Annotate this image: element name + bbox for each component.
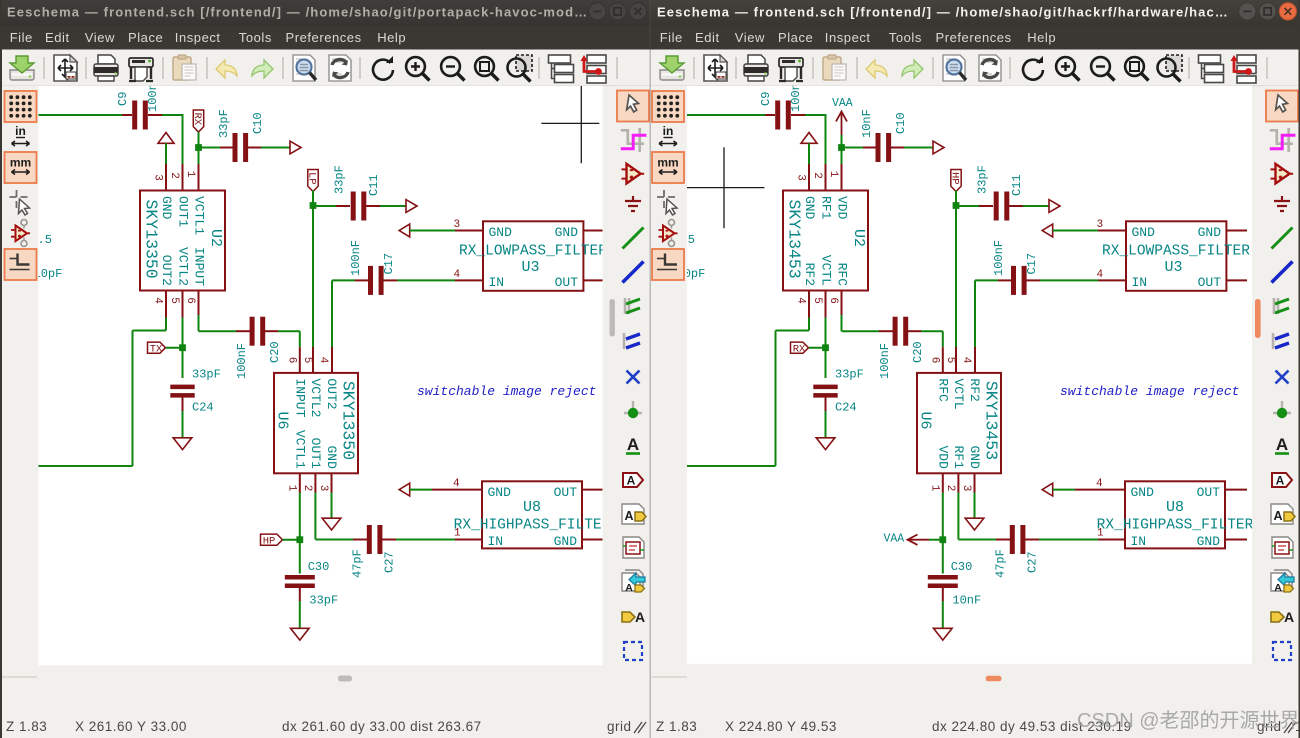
- svg-text:1: 1: [929, 485, 941, 492]
- svg-text:3: 3: [960, 485, 972, 492]
- svg-text:2: 2: [811, 172, 823, 179]
- svg-text:C11: C11: [367, 174, 381, 196]
- svg-text:5: 5: [168, 297, 180, 304]
- svg-text:X 224.80 Y 49.53: X 224.80 Y 49.53: [725, 719, 837, 734]
- svg-text:GND: GND: [1131, 485, 1155, 500]
- svg-text:IN: IN: [488, 534, 504, 549]
- svg-text:C9: C9: [759, 92, 773, 106]
- svg-text:OUT1: OUT1: [176, 196, 191, 227]
- svg-text:GND: GND: [555, 225, 579, 240]
- svg-text:2: 2: [168, 172, 180, 179]
- svg-text:U6: U6: [274, 412, 291, 430]
- svg-text:Place: Place: [778, 30, 813, 45]
- svg-text:1: 1: [184, 171, 196, 178]
- svg-text:LP: LP: [305, 172, 317, 185]
- svg-text:4: 4: [152, 297, 164, 304]
- svg-text:Z 1.83: Z 1.83: [656, 719, 697, 734]
- svg-text:RF2: RF2: [967, 378, 982, 401]
- svg-text:33pF: 33pF: [309, 594, 338, 608]
- svg-text:OUT: OUT: [1197, 485, 1221, 500]
- svg-text:switchable image reject: switchable image reject: [1060, 384, 1239, 399]
- svg-text:C10: C10: [894, 112, 908, 134]
- svg-text:VCTL1: VCTL1: [192, 196, 207, 235]
- svg-text:C9: C9: [116, 92, 130, 106]
- svg-text:VCTL1: VCTL1: [292, 430, 307, 469]
- svg-text:C17: C17: [382, 253, 396, 275]
- svg-text:47pF: 47pF: [994, 549, 1008, 578]
- svg-text:3: 3: [152, 174, 164, 181]
- svg-text:OUT2: OUT2: [324, 378, 339, 409]
- svg-text:4: 4: [795, 297, 807, 304]
- svg-text:3: 3: [317, 485, 329, 492]
- svg-text:C24: C24: [192, 401, 214, 415]
- svg-text:RFC: RFC: [935, 378, 950, 402]
- svg-text:View: View: [735, 30, 765, 45]
- svg-text:VDD: VDD: [835, 196, 850, 220]
- svg-text:File: File: [10, 30, 33, 45]
- svg-text:GND: GND: [488, 485, 512, 500]
- svg-text:RX: RX: [191, 113, 203, 126]
- svg-text:4: 4: [454, 269, 461, 281]
- svg-text:VCTL2: VCTL2: [176, 247, 191, 286]
- svg-text:33pF: 33pF: [217, 109, 231, 138]
- svg-text:View: View: [85, 30, 115, 45]
- svg-text:VAA: VAA: [832, 97, 853, 110]
- svg-text:Tools: Tools: [889, 30, 922, 45]
- svg-text:C10: C10: [251, 112, 265, 134]
- svg-text:33pF: 33pF: [192, 368, 221, 382]
- svg-text:Help: Help: [377, 30, 406, 45]
- svg-text:4: 4: [453, 478, 460, 490]
- svg-text:VCTL2: VCTL2: [308, 378, 323, 417]
- svg-text:2: 2: [944, 485, 956, 492]
- svg-text:SKY13453: SKY13453: [982, 381, 1001, 460]
- svg-text:OUT: OUT: [554, 485, 578, 500]
- svg-text:GND: GND: [1132, 225, 1156, 240]
- svg-text:4: 4: [317, 357, 329, 364]
- svg-text:5: 5: [944, 357, 956, 364]
- svg-text:33pF: 33pF: [333, 165, 347, 194]
- svg-text:Z 1.83: Z 1.83: [6, 719, 47, 734]
- svg-text:HP: HP: [948, 172, 960, 185]
- svg-text:U2: U2: [207, 229, 224, 247]
- svg-text:C27: C27: [1026, 551, 1040, 573]
- svg-text:GND: GND: [489, 225, 513, 240]
- svg-text:C20: C20: [911, 341, 925, 363]
- svg-text:OUT: OUT: [1198, 275, 1222, 290]
- svg-text:RF1: RF1: [819, 196, 834, 220]
- svg-text:100nF: 100nF: [992, 240, 1006, 276]
- svg-text:10nF: 10nF: [860, 109, 874, 138]
- svg-text:RFC: RFC: [835, 263, 850, 287]
- svg-text:HP: HP: [263, 536, 276, 548]
- svg-text:100nF: 100nF: [349, 240, 363, 276]
- svg-text:IN: IN: [489, 275, 505, 290]
- svg-text:C20: C20: [268, 341, 282, 363]
- svg-text:C24: C24: [835, 401, 857, 415]
- svg-text:U6: U6: [917, 412, 934, 430]
- svg-text:VAA: VAA: [884, 533, 905, 546]
- svg-text:VCTL: VCTL: [951, 378, 966, 409]
- svg-text:VDD: VDD: [935, 445, 950, 469]
- svg-text:5: 5: [811, 297, 823, 304]
- svg-text:5: 5: [301, 357, 313, 364]
- svg-text:Preferences: Preferences: [936, 30, 1012, 45]
- svg-text:10nF: 10nF: [952, 594, 981, 608]
- svg-text:Place: Place: [128, 30, 163, 45]
- svg-text:1: 1: [827, 171, 839, 178]
- svg-text:RF1: RF1: [951, 445, 966, 469]
- svg-text:GND: GND: [967, 445, 982, 469]
- svg-text:IN: IN: [1132, 275, 1148, 290]
- svg-text:2: 2: [301, 485, 313, 492]
- svg-text:Edit: Edit: [695, 30, 720, 45]
- svg-text:RX_LOWPASS_FILTER: RX_LOWPASS_FILTER: [459, 244, 607, 260]
- svg-text:6: 6: [184, 297, 196, 304]
- svg-text:U8: U8: [523, 499, 541, 516]
- svg-text:3: 3: [795, 174, 807, 181]
- svg-text:6: 6: [929, 357, 941, 364]
- svg-text:X 261.60 Y 33.00: X 261.60 Y 33.00: [75, 719, 187, 734]
- svg-text:VCTL: VCTL: [819, 255, 834, 286]
- svg-text:U3: U3: [1165, 259, 1183, 276]
- svg-text:100n: 100n: [789, 83, 803, 112]
- svg-text:.5: .5: [38, 233, 52, 247]
- svg-text:grid: grid: [607, 719, 632, 734]
- svg-text:4: 4: [1096, 478, 1103, 490]
- svg-text:C17: C17: [1025, 253, 1039, 275]
- svg-text:3: 3: [1097, 219, 1104, 231]
- svg-text:C30: C30: [951, 560, 973, 574]
- svg-text:RX_LOWPASS_FILTER: RX_LOWPASS_FILTER: [1102, 244, 1250, 260]
- svg-text:6: 6: [827, 297, 839, 304]
- svg-text:100nF: 100nF: [235, 343, 249, 379]
- svg-text:SKY13350: SKY13350: [339, 381, 358, 460]
- svg-text:Edit: Edit: [45, 30, 70, 45]
- svg-text:Eeschema — frontend.sch [/fron: Eeschema — frontend.sch [/frontend/] — /…: [7, 5, 588, 20]
- svg-text:1: 1: [286, 485, 298, 492]
- svg-text:47pF: 47pF: [351, 549, 365, 578]
- svg-text:Help: Help: [1027, 30, 1056, 45]
- svg-text:4: 4: [960, 357, 972, 364]
- svg-text:GND: GND: [1198, 225, 1222, 240]
- svg-text:SKY13350: SKY13350: [141, 200, 160, 279]
- svg-text:C30: C30: [308, 560, 330, 574]
- svg-text:100nF: 100nF: [878, 343, 892, 379]
- svg-text:3: 3: [454, 219, 461, 231]
- svg-text:INPUT: INPUT: [292, 378, 307, 417]
- svg-text:TX: TX: [150, 344, 163, 356]
- svg-text:GND: GND: [324, 445, 339, 469]
- svg-text:RX_HIGHPASS_FILTER: RX_HIGHPASS_FILTER: [1097, 518, 1254, 534]
- svg-text:RX_HIGHPASS_FILTER: RX_HIGHPASS_FILTER: [454, 518, 611, 534]
- svg-text:Eeschema — frontend.sch [/fron: Eeschema — frontend.sch [/frontend/] — /…: [657, 5, 1229, 20]
- svg-text:dx 261.60 dy 33.00 dist 26: dx 261.60 dy 33.00 dist 263.67: [282, 719, 482, 734]
- svg-text:4: 4: [1097, 269, 1104, 281]
- svg-text:Inspect: Inspect: [825, 30, 871, 45]
- svg-text:U3: U3: [522, 259, 540, 276]
- svg-text:C11: C11: [1010, 174, 1024, 196]
- svg-text:33pF: 33pF: [976, 165, 990, 194]
- svg-text:INPUT: INPUT: [192, 247, 207, 286]
- svg-text:Tools: Tools: [239, 30, 272, 45]
- svg-text:33pF: 33pF: [835, 368, 864, 382]
- svg-text:GND: GND: [554, 534, 578, 549]
- svg-text:6: 6: [286, 357, 298, 364]
- svg-text:100n: 100n: [146, 83, 160, 112]
- svg-text:C27: C27: [383, 551, 397, 573]
- svg-text:OUT: OUT: [555, 275, 579, 290]
- svg-text:U8: U8: [1166, 499, 1184, 516]
- svg-text:switchable image reject: switchable image reject: [417, 384, 596, 399]
- svg-text:SKY13453: SKY13453: [784, 200, 803, 279]
- svg-text:IN: IN: [1131, 534, 1147, 549]
- svg-text:RX: RX: [793, 344, 806, 356]
- svg-text:OUT1: OUT1: [308, 438, 323, 469]
- svg-text:CSDN @老邵的开源世界: CSDN @老邵的开源世界: [1077, 709, 1300, 732]
- svg-text:U2: U2: [850, 229, 867, 247]
- svg-text:Preferences: Preferences: [286, 30, 362, 45]
- svg-text:File: File: [660, 30, 683, 45]
- svg-text:Inspect: Inspect: [175, 30, 221, 45]
- svg-text:GND: GND: [1197, 534, 1221, 549]
